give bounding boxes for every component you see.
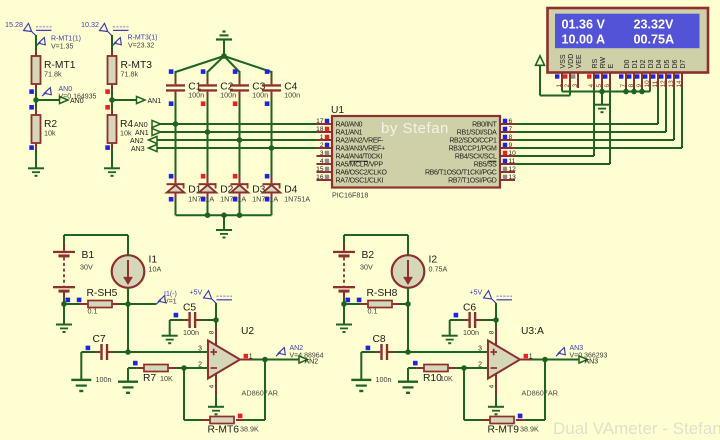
capacitor C2 — [198, 84, 217, 86]
op-amp output pin 1 marker — [244, 354, 248, 358]
svg-text:D3: D3 — [648, 59, 655, 68]
svg-text:11: 11 — [652, 80, 659, 87]
current source I1 — [112, 255, 145, 288]
wire — [64, 303, 80, 305]
svg-text:0.1: 0.1 — [88, 307, 98, 316]
svg-text:9: 9 — [636, 84, 643, 88]
U1 pin 8 (RB2/SDO/CCP1) — [500, 139, 515, 141]
svg-text:8: 8 — [488, 330, 495, 334]
svg-text:RA3/AN3/VREF+: RA3/AN3/VREF+ — [336, 146, 386, 153]
ground — [104, 167, 120, 169]
svg-text:V=1: V=1 — [164, 299, 177, 306]
svg-text:10.00 A: 10.00 A — [562, 32, 606, 46]
ground — [71, 379, 91, 381]
handle — [265, 197, 270, 202]
diode D2 zener 1N751A — [207, 177, 209, 184]
svg-text:18: 18 — [316, 126, 324, 133]
wire — [35, 100, 37, 109]
svg-text:100n: 100n — [252, 91, 268, 100]
svg-text:AN2: AN2 — [290, 345, 304, 352]
U1 pin 18 (RA1/AN1) — [317, 131, 333, 133]
svg-text:V=23.32: V=23.32 — [128, 43, 154, 50]
svg-text:RB7/T1OSI/PGD: RB7/T1OSI/PGD — [448, 178, 497, 185]
svg-text:11: 11 — [509, 158, 516, 165]
svg-text:RA1/AN1: RA1/AN1 — [336, 130, 363, 137]
svg-text:V=1.35: V=1.35 — [51, 44, 73, 51]
wire fan to C3 — [224, 56, 240, 72]
svg-text:AN3: AN3 — [585, 359, 599, 366]
svg-text:AN3: AN3 — [570, 345, 584, 352]
svg-text:I1(-): I1(-) — [164, 291, 177, 298]
ground — [351, 379, 371, 381]
wire RS down to pin10 wire — [593, 88, 595, 156]
wire op-amp V- pin 4 — [495, 373, 497, 396]
svg-text:RB0/INT: RB0/INT — [472, 122, 497, 129]
wire — [111, 84, 113, 90]
power terminal +5V for LCD — [536, 56, 545, 66]
resistor R10 — [424, 365, 448, 372]
wire — [239, 71, 241, 78]
terminal AN3 — [579, 356, 588, 363]
node — [341, 301, 347, 307]
svg-text:16: 16 — [316, 174, 324, 181]
handle — [86, 346, 91, 351]
U1 pin 11 (RB5/SS) — [500, 163, 515, 165]
svg-text:C8: C8 — [373, 334, 386, 345]
node — [631, 89, 637, 95]
wire battery top rail — [344, 234, 408, 236]
handle — [201, 69, 206, 74]
U1 pin 6 (RB0/INT) — [500, 123, 515, 125]
power rail symbol (inverted ground) top of cap bank — [222, 30, 225, 32]
op-amp U3:A AD8607AR — [488, 341, 520, 379]
capacitor C3 — [230, 84, 249, 86]
node junction on AN wire — [205, 129, 211, 135]
svg-text:6: 6 — [509, 118, 513, 125]
svg-text:RA0/AN0: RA0/AN0 — [336, 122, 363, 129]
svg-text:RB4/SCK/SCL: RB4/SCK/SCL — [455, 154, 497, 161]
svg-text:3: 3 — [198, 345, 202, 352]
svg-text:+5V: +5V — [190, 290, 203, 297]
handle — [29, 145, 34, 150]
resistor R2 — [32, 115, 41, 143]
svg-text:1: 1 — [556, 84, 563, 88]
wire — [183, 319, 188, 321]
handle — [346, 298, 351, 303]
wire — [175, 193, 177, 201]
handle — [105, 89, 110, 94]
svg-text:12: 12 — [509, 166, 517, 173]
wire — [111, 35, 113, 50]
svg-text:RA5/MCLR/VPP: RA5/MCLR/VPP — [336, 162, 384, 169]
ground — [488, 406, 504, 408]
op-amp U2 AD8607AR — [208, 341, 240, 379]
svg-text:D6: D6 — [672, 59, 679, 68]
svg-text:by Stefan: by Stefan — [381, 120, 449, 137]
svg-text:1N751A: 1N751A — [284, 194, 310, 203]
U1 pin 1 (RA2/AN2/VREF-) — [317, 139, 333, 141]
svg-text:VDD: VDD — [568, 54, 575, 69]
wire — [482, 419, 491, 421]
wire — [239, 92, 241, 98]
handle — [133, 361, 138, 366]
svg-text:PIC16F818: PIC16F818 — [332, 191, 368, 200]
svg-text:2: 2 — [564, 84, 571, 88]
probe R-MT1(1) — [36, 38, 45, 46]
U1 PIC16F818 body — [332, 116, 500, 188]
U1 pin 13 (RB7/T1OSI/PGD) — [500, 179, 515, 181]
wire — [463, 319, 468, 321]
svg-text:R-SH8: R-SH8 — [367, 288, 398, 299]
svg-text:00.75A: 00.75A — [634, 32, 675, 46]
overline SS — [488, 160, 497, 162]
handle — [233, 101, 238, 106]
svg-text:AD8607AR: AD8607AR — [242, 388, 279, 397]
wire U1 pin to LCD — [515, 139, 674, 141]
svg-text:2: 2 — [320, 142, 324, 149]
svg-text:RW: RW — [600, 57, 607, 69]
wire op-amp V+ pin 8 — [215, 327, 217, 346]
wire — [128, 303, 156, 305]
svg-text:R-MT9: R-MT9 — [488, 425, 520, 436]
svg-text:4: 4 — [588, 84, 595, 88]
svg-text:3: 3 — [572, 84, 579, 88]
svg-text:RB2/SDO/CCP1: RB2/SDO/CCP1 — [449, 138, 497, 145]
svg-text:23.32V: 23.32V — [634, 17, 675, 31]
wire — [223, 41, 225, 57]
node — [405, 349, 411, 355]
svg-text:C5: C5 — [183, 303, 196, 314]
svg-text:C6: C6 — [463, 303, 476, 314]
capacitor C7 — [100, 344, 102, 360]
svg-text:17: 17 — [316, 118, 324, 125]
handle — [413, 361, 418, 366]
svg-text:RB5/SS: RB5/SS — [474, 162, 497, 169]
svg-text:71.8k: 71.8k — [121, 70, 139, 79]
svg-text:1: 1 — [320, 134, 324, 141]
svg-text:D2: D2 — [640, 59, 647, 68]
wire AN0 to pin17 — [161, 123, 317, 125]
resistor R-MT1 — [32, 56, 41, 84]
LCD module body — [548, 8, 709, 73]
svg-text:R-MT1(1): R-MT1(1) — [51, 36, 81, 43]
svg-text:30V: 30V — [360, 263, 373, 272]
svg-text:RA7/OSC1/CLKI: RA7/OSC1/CLKI — [336, 178, 384, 185]
wire — [127, 304, 129, 352]
svg-text:9: 9 — [509, 142, 513, 149]
svg-text:U2: U2 — [241, 326, 254, 337]
svg-text:1: 1 — [529, 353, 533, 360]
node AN0 junction — [33, 97, 39, 103]
U1 pin 12 (RB6/T1OSO/T1CKI/PGC) — [500, 171, 515, 173]
wire — [35, 84, 37, 90]
handle — [169, 69, 174, 74]
svg-text:01.36 V: 01.36 V — [562, 17, 606, 31]
handle — [265, 69, 270, 74]
wire — [111, 100, 113, 109]
wire — [207, 193, 209, 201]
svg-text:U1: U1 — [331, 105, 344, 116]
handle — [29, 89, 34, 94]
svg-text:7: 7 — [620, 84, 627, 88]
wire — [112, 99, 137, 101]
wire AN2 to pin1 — [157, 139, 317, 141]
svg-text:6: 6 — [604, 84, 611, 88]
svg-text:14: 14 — [676, 80, 683, 88]
svg-text:10K: 10K — [440, 374, 453, 383]
ground — [162, 335, 178, 337]
wire — [264, 360, 266, 421]
wire +5V to VDD — [539, 65, 541, 95]
svg-text:10K: 10K — [160, 374, 173, 383]
svg-text:3: 3 — [320, 150, 324, 157]
node — [125, 301, 131, 307]
wire — [343, 304, 345, 324]
wire — [63, 235, 65, 243]
node — [623, 89, 629, 95]
svg-text:C7: C7 — [93, 334, 106, 345]
diode D1 zener 1N751A — [175, 177, 177, 184]
svg-text:100n: 100n — [376, 375, 392, 384]
svg-text:10: 10 — [644, 80, 651, 88]
svg-text:B1: B1 — [82, 250, 95, 261]
svg-text:RB6/T1OSO/T1CKI/PGC: RB6/T1OSO/T1CKI/PGC — [425, 170, 497, 177]
svg-text:Dual VAmeter - Stefan: Dual VAmeter - Stefan — [553, 419, 720, 438]
handle — [518, 414, 523, 419]
svg-text:7: 7 — [509, 126, 513, 133]
node AN1 junction — [109, 97, 115, 103]
resistor R-MT6 — [210, 417, 234, 424]
current source I2 — [392, 255, 425, 288]
svg-text:R7: R7 — [143, 373, 156, 384]
node — [61, 301, 67, 307]
node — [599, 89, 605, 95]
svg-text:10k: 10k — [44, 129, 56, 138]
svg-text:30V: 30V — [80, 263, 93, 272]
handle — [201, 101, 206, 106]
resistor R-SH8 — [368, 301, 392, 308]
LCD screen — [555, 14, 700, 49]
svg-text:+5V: +5V — [470, 290, 483, 297]
wire AN1 to pin18 — [161, 131, 317, 133]
handle — [454, 313, 459, 318]
resistor R7 — [144, 365, 168, 372]
wire — [36, 99, 60, 101]
svg-text:100n: 100n — [220, 91, 236, 100]
wire — [271, 92, 273, 98]
wire — [601, 92, 603, 105]
terminal AN0 — [60, 96, 69, 103]
wire — [392, 303, 400, 305]
node — [205, 212, 211, 218]
node — [213, 317, 219, 323]
handle — [201, 197, 206, 202]
handle — [233, 197, 238, 202]
svg-text:13: 13 — [509, 174, 517, 181]
wire output — [520, 359, 532, 361]
svg-text:R-SH5: R-SH5 — [87, 288, 118, 299]
svg-text:10A: 10A — [149, 265, 162, 274]
svg-text:D0: D0 — [624, 59, 631, 68]
diode D4 zener 1N751A — [271, 177, 273, 184]
svg-text:100n: 100n — [96, 375, 112, 384]
svg-text:D4: D4 — [656, 59, 663, 68]
svg-text:4: 4 — [320, 158, 324, 165]
wire — [475, 319, 482, 321]
capacitor C1 — [166, 84, 185, 86]
wire fan to C2 — [208, 56, 225, 72]
ground — [208, 406, 224, 408]
op-amp output pin 1 marker — [524, 354, 528, 358]
node junction on AN wire — [269, 145, 275, 151]
wire AN3 to pin2 — [157, 147, 317, 149]
wire — [448, 367, 456, 369]
wire — [239, 193, 241, 201]
handle — [169, 101, 174, 106]
svg-text:15: 15 — [316, 166, 324, 173]
wire — [175, 92, 177, 98]
svg-text:4: 4 — [208, 384, 215, 388]
wire — [137, 367, 144, 369]
svg-text:AN2: AN2 — [305, 359, 319, 366]
svg-text:38.9K: 38.9K — [240, 425, 259, 434]
svg-text:RB1/SDI/SDA: RB1/SDI/SDA — [457, 130, 497, 137]
terminal AN2 — [299, 356, 308, 363]
svg-text:8: 8 — [628, 84, 635, 88]
svg-text:D7: D7 — [680, 59, 687, 68]
wire — [343, 292, 345, 298]
wire — [375, 351, 380, 353]
node cap-bank junction — [221, 53, 227, 59]
U1 pin 2 (RA3/AN3/VREF+) — [317, 147, 333, 149]
wire — [417, 367, 424, 369]
wire — [107, 351, 114, 353]
handle — [77, 298, 82, 303]
overline MCLR — [350, 160, 368, 162]
handle — [201, 174, 206, 179]
ground — [336, 324, 352, 326]
wire — [271, 71, 273, 78]
capacitor C4 — [262, 84, 281, 86]
svg-text:100n: 100n — [188, 91, 204, 100]
wire op-amp V+ pin 8 — [495, 327, 497, 346]
svg-text:D5: D5 — [664, 59, 671, 68]
wire fan to C1 — [176, 56, 225, 72]
wire battery top rail — [64, 234, 128, 236]
diode D3 zener 1N751A — [239, 177, 241, 184]
svg-text:E: E — [608, 64, 615, 69]
ground — [56, 324, 72, 326]
wire — [407, 235, 409, 255]
wire U1 pin to LCD — [515, 131, 666, 133]
U1 pin 15 (RA6/OSC2/CLKO) — [317, 171, 333, 173]
wire — [35, 143, 37, 149]
svg-text:RA4/AN4/T0CKI: RA4/AN4/T0CKI — [336, 154, 383, 161]
probe AN2 — [276, 348, 285, 356]
svg-text:B2: B2 — [362, 250, 375, 261]
svg-text:0.75A: 0.75A — [429, 265, 448, 274]
svg-text:5: 5 — [596, 84, 603, 88]
wire — [127, 235, 129, 255]
svg-text:15.28: 15.28 — [5, 20, 23, 29]
wire — [207, 71, 209, 78]
handle — [169, 174, 174, 179]
svg-text:RA6/OSC2/CLKO: RA6/OSC2/CLKO — [336, 170, 388, 177]
handle — [366, 346, 371, 351]
terminal AN1 — [137, 96, 146, 103]
node — [181, 365, 187, 371]
svg-text:13: 13 — [668, 80, 675, 88]
U1 pin 17 (RA0/AN0) — [317, 123, 333, 125]
svg-text:10.32: 10.32 — [81, 20, 99, 29]
wire U1 pin to LCD — [515, 163, 610, 165]
wire — [168, 367, 176, 369]
wire — [344, 303, 360, 305]
wire LCD ground bus — [561, 88, 563, 92]
node — [221, 212, 227, 218]
U1 pin 9 (RB3/CCP1/PGM) — [500, 147, 515, 149]
wire — [35, 35, 37, 50]
resistor R4 — [108, 115, 117, 143]
handle — [265, 101, 270, 106]
ground — [442, 335, 458, 337]
handle — [238, 414, 243, 419]
ground — [118, 381, 138, 383]
wire — [175, 71, 177, 78]
node — [237, 212, 243, 218]
U1 pin 10 (RB4/SCK/SCL) — [500, 155, 515, 157]
battery B2 — [333, 251, 355, 253]
svg-text:100n: 100n — [284, 91, 300, 100]
node — [639, 89, 645, 95]
U1 pin 3 (RA4/AN4/T0CKI) — [317, 155, 333, 157]
node — [125, 349, 131, 355]
resistor R-MT9 — [490, 417, 514, 424]
svg-text:D1: D1 — [632, 59, 639, 68]
node — [542, 357, 548, 363]
svg-text:RS: RS — [592, 58, 599, 68]
svg-text:R-MT3(1): R-MT3(1) — [128, 35, 158, 42]
wire — [111, 143, 113, 149]
wire op-amp V- pin 4 — [215, 373, 217, 396]
wire — [63, 292, 65, 298]
svg-text:AN3: AN3 — [131, 146, 145, 153]
wire diode bottom bus — [176, 214, 272, 216]
handle — [233, 174, 238, 179]
handle — [357, 298, 362, 303]
handle — [66, 298, 71, 303]
svg-text:8: 8 — [208, 330, 215, 334]
svg-text:AN0: AN0 — [134, 122, 148, 129]
svg-text:VEE: VEE — [576, 54, 583, 68]
wire — [343, 235, 345, 243]
svg-text:3: 3 — [478, 345, 482, 352]
svg-text:8: 8 — [509, 134, 513, 141]
wire — [387, 351, 394, 353]
svg-text:RB3/CCP1/PGM: RB3/CCP1/PGM — [449, 146, 497, 153]
capacitor C8 — [380, 344, 382, 360]
resistor R-SH5 — [88, 301, 112, 308]
svg-text:0.1: 0.1 — [368, 307, 378, 316]
probe AN0 — [42, 88, 51, 96]
wire — [223, 215, 225, 229]
svg-text:100n: 100n — [463, 328, 479, 337]
wire feedback — [183, 368, 185, 420]
svg-text:RA2/AN2/VREF-: RA2/AN2/VREF- — [336, 138, 385, 145]
wire — [271, 193, 273, 201]
resistor R-MT3 — [108, 56, 117, 84]
ground — [398, 381, 418, 383]
